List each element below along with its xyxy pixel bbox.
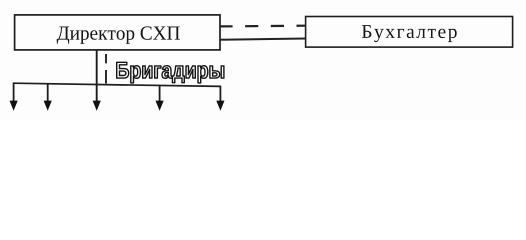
wire horizontal rail [14,83,221,86]
arrow 1 [10,83,18,111]
box Бухгалтер [306,17,513,48]
label Бригадиры (outlined) [117,62,224,83]
wire solid connector between boxes [220,39,306,40]
label Директор СХП [57,26,180,44]
wire dashed vertical below box [105,54,107,84]
box Директор СХП [15,15,220,50]
arrow 2 [44,84,52,111]
arrow 4 [156,86,164,111]
wire dashed connector between boxes [219,25,306,28]
label Бухгалтер [362,25,457,42]
arrow 3 (from box bottom through rail) [93,50,101,111]
arrow 5 [216,86,224,111]
